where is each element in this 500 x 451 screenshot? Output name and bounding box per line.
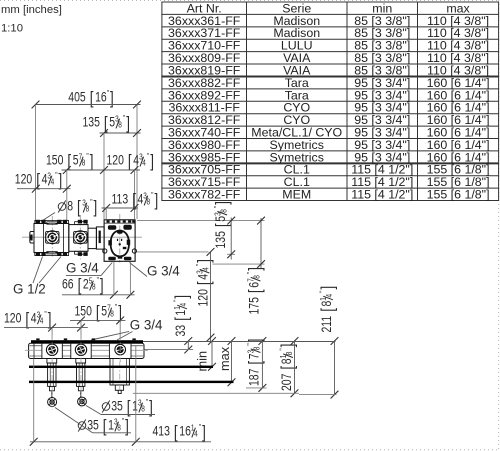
dim text 175v bbox=[245, 267, 265, 314]
top view connector bbox=[88, 228, 96, 248]
svg-text:175: 175 bbox=[246, 297, 262, 315]
svg-text:8: 8 bbox=[252, 275, 262, 279]
mounting tab bbox=[57, 252, 61, 256]
page dotted border top bbox=[0, 0, 500, 2]
svg-text:[: [ bbox=[174, 424, 178, 443]
svg-text:8: 8 bbox=[141, 404, 145, 414]
dim text 135v bbox=[212, 201, 232, 248]
dim line 175v bbox=[260, 218, 262, 268]
page dotted border bottom bbox=[0, 449, 500, 451]
extension bottom edge right bbox=[137, 251, 209, 253]
svg-text:]: ] bbox=[279, 344, 298, 348]
dim text 413 bbox=[153, 422, 206, 442]
svg-text:": " bbox=[199, 422, 202, 432]
svg-text:8: 8 bbox=[284, 352, 294, 356]
svg-text:]: ] bbox=[319, 286, 338, 290]
svg-text:G 1/2: G 1/2 bbox=[13, 282, 46, 297]
svg-text:8: 8 bbox=[110, 309, 114, 319]
left body top rail bbox=[35, 220, 69, 223]
centerline bottom valve 1 bbox=[51, 335, 53, 363]
svg-text:min: min bbox=[195, 351, 210, 372]
mounting tab bbox=[36, 220, 40, 224]
G1/2 leader 1 bbox=[33, 257, 43, 284]
second body top tab bbox=[75, 222, 87, 225]
strip left end cap bbox=[33, 343, 35, 358]
svg-text:": " bbox=[55, 170, 58, 180]
svg-text:4: 4 bbox=[40, 316, 44, 326]
mounting tab bbox=[63, 220, 67, 224]
svg-text:4: 4 bbox=[51, 177, 55, 187]
extension line mid bbox=[103, 133, 105, 219]
dim text 187v bbox=[245, 339, 265, 386]
dim text dia35b bbox=[78, 416, 129, 436]
dim line 211v bbox=[334, 341, 336, 395]
svg-text:4: 4 bbox=[201, 267, 211, 271]
svg-text:[: [ bbox=[319, 307, 338, 311]
valve cartridge square V2 bbox=[74, 231, 87, 243]
svg-text:]: ] bbox=[173, 295, 192, 299]
dim text 33v bbox=[172, 295, 192, 337]
svg-text:4: 4 bbox=[178, 303, 188, 307]
svg-text:4: 4 bbox=[142, 158, 146, 168]
adapter black bar bbox=[99, 231, 101, 244]
bottom valve body B2 bbox=[71, 343, 91, 358]
stem 1 foot bbox=[50, 386, 55, 390]
svg-text:150: 150 bbox=[46, 152, 64, 168]
svg-text:": " bbox=[278, 348, 288, 351]
extension line 134.5 bbox=[134, 170, 136, 219]
svg-text:66: 66 bbox=[62, 276, 74, 292]
max wall line (thick) bbox=[29, 381, 234, 383]
dim line 187v bbox=[261, 341, 263, 388]
svg-text:8: 8 bbox=[118, 120, 122, 130]
svg-text:[: [ bbox=[213, 223, 232, 227]
G3/4 leader bbox=[101, 263, 112, 276]
svg-text:4: 4 bbox=[194, 429, 198, 439]
svg-text:]: ] bbox=[202, 424, 206, 443]
G3/4 shelf bbox=[66, 275, 101, 277]
svg-text:16: 16 bbox=[95, 89, 107, 105]
svg-text:]: ] bbox=[155, 192, 159, 211]
dim text 113 bbox=[112, 190, 159, 210]
svg-text:]: ] bbox=[247, 267, 266, 271]
extension bottom edge right part2 bbox=[227, 253, 235, 255]
min wall line (thick) bbox=[29, 366, 213, 368]
dim text 120c bbox=[4, 309, 51, 329]
dim line 150a/120a bbox=[62, 169, 141, 171]
dim text 207v bbox=[278, 344, 298, 391]
stem 1 bbox=[47, 359, 57, 364]
svg-text:[: [ bbox=[78, 277, 82, 296]
svg-text:]: ] bbox=[125, 418, 129, 437]
egg small port bbox=[123, 247, 127, 249]
screw level extension bbox=[133, 392, 299, 394]
top view adapter plate bbox=[96, 227, 104, 249]
bottom view horizontal centerline bbox=[25, 349, 148, 351]
svg-text:8: 8 bbox=[82, 158, 86, 168]
mounting tab bbox=[41, 220, 45, 224]
svg-text:]: ] bbox=[150, 153, 154, 172]
extension line 66.8 bbox=[66, 170, 68, 221]
svg-text:]: ] bbox=[48, 311, 52, 330]
top view left end cap bbox=[30, 232, 34, 244]
svg-text:G 3/4: G 3/4 bbox=[147, 264, 180, 279]
valve circle V1 bbox=[46, 231, 59, 244]
right body egg opening bbox=[111, 231, 129, 257]
svg-text:8: 8 bbox=[147, 197, 151, 207]
centerline right body bbox=[119, 214, 121, 263]
dim line 207v bbox=[294, 341, 296, 393]
centerline valve 1 bbox=[51, 216, 53, 259]
dim line 113 bbox=[102, 207, 139, 209]
dim text 120b bbox=[15, 170, 62, 190]
strip lower edge extension bbox=[144, 349, 193, 351]
left body bottom rail bbox=[35, 253, 69, 256]
svg-text:16: 16 bbox=[179, 423, 191, 439]
bottom valve circle B2 bbox=[75, 344, 86, 355]
right body corner screws bbox=[103, 249, 107, 253]
svg-text:187: 187 bbox=[246, 368, 262, 386]
washer circle 2 bbox=[78, 397, 87, 406]
extension top edge right bbox=[137, 220, 265, 222]
svg-text:135: 135 bbox=[83, 114, 101, 130]
extension line left body edge bbox=[35, 105, 37, 223]
top view horizontal centerline bbox=[22, 236, 142, 238]
svg-text:]: ] bbox=[94, 199, 98, 218]
svg-text:": " bbox=[90, 197, 93, 207]
G3/4 third leader long bbox=[91, 332, 129, 341]
svg-text:155 [6 1/8"]: 155 [6 1/8"] bbox=[427, 188, 490, 202]
leader dia35 second bbox=[55, 408, 93, 433]
svg-text:115 [4 1/2"]: 115 [4 1/2"] bbox=[351, 188, 413, 202]
stem 3 foot bbox=[115, 385, 123, 390]
svg-text:[: [ bbox=[247, 289, 266, 293]
foot level extension bbox=[246, 387, 267, 389]
stem 3 (rough housing) bbox=[110, 359, 129, 386]
dim text 211v bbox=[318, 286, 338, 333]
strip inner bottom line bbox=[30, 355, 144, 357]
svg-text:": " bbox=[122, 416, 125, 426]
dim line 135h bbox=[100, 132, 141, 134]
svg-text:113: 113 bbox=[112, 191, 129, 207]
svg-text:G 3/4: G 3/4 bbox=[130, 318, 163, 333]
extension port level right bbox=[213, 263, 265, 265]
dim text 120a bbox=[107, 151, 154, 171]
svg-text:135: 135 bbox=[213, 231, 229, 249]
svg-text:8: 8 bbox=[218, 209, 228, 213]
svg-text:[: [ bbox=[128, 153, 132, 172]
page dotted border right bbox=[498, 0, 500, 451]
dim line 120c bbox=[4, 327, 88, 329]
svg-text:": " bbox=[245, 271, 255, 274]
svg-text:max: max bbox=[217, 346, 232, 371]
stem 2 screw bbox=[80, 391, 82, 397]
dim line max bbox=[231, 341, 233, 382]
svg-text:[: [ bbox=[103, 418, 107, 437]
dia35 second shelf bbox=[93, 432, 132, 434]
bottom view rail thin extension bbox=[143, 341, 336, 343]
svg-text:]: ] bbox=[213, 201, 232, 205]
svg-text:[: [ bbox=[90, 90, 94, 109]
svg-text:]: ] bbox=[196, 259, 215, 263]
extension line 106 bbox=[105, 208, 107, 219]
leader dia35 first bbox=[86, 406, 101, 415]
svg-text:[: [ bbox=[25, 311, 29, 330]
svg-text:207: 207 bbox=[279, 373, 295, 391]
svg-text:211: 211 bbox=[319, 316, 335, 333]
svg-text:150: 150 bbox=[75, 303, 93, 319]
svg-text:": " bbox=[97, 275, 100, 285]
svg-text:[: [ bbox=[279, 365, 298, 369]
svg-text:]: ] bbox=[59, 172, 63, 191]
egg inner marks bbox=[117, 239, 119, 241]
dim line 413 bbox=[30, 441, 211, 443]
dim text dia8 bbox=[58, 197, 97, 217]
strip inner top line bbox=[30, 345, 144, 347]
mounting tab bbox=[57, 220, 61, 224]
rail screw nub bbox=[64, 338, 67, 340]
svg-text:[: [ bbox=[173, 317, 192, 321]
svg-text:413: 413 bbox=[153, 423, 171, 439]
dim text 405 bbox=[68, 88, 113, 108]
egg left ear bbox=[108, 240, 112, 245]
svg-text:": " bbox=[86, 151, 89, 161]
svg-text:[: [ bbox=[196, 281, 215, 285]
svg-text:36xxx782-FF: 36xxx782-FF bbox=[168, 188, 241, 202]
dim text 150a bbox=[46, 151, 93, 171]
second body bottom tab bbox=[75, 251, 87, 254]
stem 1 screw bbox=[51, 391, 53, 398]
centerline bottom valve 2 bbox=[80, 335, 82, 363]
svg-text:]: ] bbox=[126, 115, 130, 134]
rail screw nub bbox=[92, 338, 95, 340]
svg-text:MEM: MEM bbox=[282, 188, 311, 202]
svg-text:": " bbox=[123, 113, 126, 123]
svg-text:405: 405 bbox=[68, 89, 86, 105]
top view right body bbox=[104, 220, 135, 261]
bottom valve circle B1 bbox=[46, 344, 57, 355]
dim text 150b bbox=[75, 302, 122, 322]
svg-text:G 3/4: G 3/4 bbox=[66, 261, 99, 276]
svg-text:8: 8 bbox=[86, 204, 90, 214]
svg-text:8: 8 bbox=[252, 347, 262, 351]
svg-text:120: 120 bbox=[4, 310, 22, 326]
svg-text:": " bbox=[245, 343, 255, 346]
svg-text:mm [inches]: mm [inches] bbox=[1, 4, 62, 16]
svg-text:8: 8 bbox=[67, 198, 73, 214]
stem 3 tip bbox=[118, 390, 121, 393]
ext valve2 bbox=[80, 320, 82, 339]
left body divider 1 bbox=[43, 224, 45, 253]
leader line dia8 bbox=[41, 213, 55, 222]
svg-text:": " bbox=[151, 190, 154, 200]
left body divider 2 bbox=[63, 224, 65, 253]
dim line 120v bbox=[210, 252, 212, 341]
dim line 120b bbox=[17, 188, 71, 190]
dim line 150b bbox=[70, 319, 125, 321]
svg-text:[: [ bbox=[96, 304, 100, 323]
ext 413 left bbox=[33, 359, 35, 442]
right body top serration bbox=[104, 222, 135, 224]
centerline valve 2 bbox=[79, 216, 81, 260]
strip right end cap bbox=[127, 343, 129, 358]
right body bottom ports G3/4 bbox=[108, 257, 116, 261]
egg right ear bbox=[127, 240, 131, 245]
svg-text:8: 8 bbox=[117, 423, 121, 433]
extension line right body edge bbox=[136, 105, 138, 220]
svg-text:[: [ bbox=[77, 199, 81, 218]
ext port right bbox=[129, 262, 131, 295]
egg bottom tab bbox=[118, 256, 123, 259]
mounting tab bbox=[41, 252, 45, 256]
svg-text:": " bbox=[318, 290, 328, 293]
bottom valve body B3 bbox=[109, 343, 131, 358]
svg-text:": " bbox=[146, 397, 149, 407]
left end cap dark crescent bbox=[30, 235, 33, 241]
mounting tab bbox=[78, 252, 82, 256]
dim line min bbox=[211, 341, 213, 367]
bottom view rail thick bar bbox=[31, 340, 143, 343]
ext port left bbox=[113, 262, 115, 295]
svg-text:": " bbox=[194, 263, 204, 266]
ext valve3 bbox=[119, 320, 121, 339]
egg top cap bbox=[117, 230, 123, 234]
right body clamp slot left bbox=[108, 225, 116, 230]
svg-text:4: 4 bbox=[324, 294, 334, 298]
G3/4 second leader bbox=[130, 263, 148, 277]
svg-text:120: 120 bbox=[107, 152, 125, 168]
dim line 135v bbox=[230, 218, 232, 260]
dim text 120v bbox=[194, 259, 214, 306]
dia35 first shelf bbox=[101, 414, 155, 416]
svg-text:120: 120 bbox=[195, 289, 211, 307]
mounting tab bbox=[63, 252, 67, 256]
valve cartridge square V1 bbox=[46, 231, 59, 243]
dim text dia35a bbox=[102, 397, 153, 417]
stem 2 foot bbox=[78, 386, 83, 390]
svg-text:35: 35 bbox=[111, 398, 123, 414]
svg-text:": " bbox=[212, 205, 222, 208]
svg-text:8: 8 bbox=[92, 282, 96, 292]
bottom valve body B1 bbox=[42, 343, 62, 358]
svg-text:]: ] bbox=[100, 277, 104, 296]
dim text 135h bbox=[83, 113, 130, 133]
dim line 405 bbox=[36, 104, 141, 106]
svg-text:]: ] bbox=[90, 153, 94, 172]
svg-text:": " bbox=[44, 309, 47, 319]
stem 2 bbox=[76, 359, 86, 364]
dim text 66 bbox=[62, 275, 104, 295]
dim line 66 bbox=[62, 294, 135, 296]
top view left body bbox=[34, 224, 69, 253]
G3/4 third leader short bbox=[117, 332, 133, 341]
svg-text:1:10: 1:10 bbox=[1, 23, 23, 35]
rail screw nub bbox=[36, 338, 39, 340]
ext valve1 bbox=[51, 328, 53, 339]
mounting tab bbox=[83, 252, 87, 256]
bottom valve circle B3 bbox=[115, 344, 126, 355]
svg-text:33: 33 bbox=[173, 325, 189, 337]
svg-text:": " bbox=[115, 302, 118, 312]
ext 413 right bbox=[135, 345, 137, 442]
parts table bbox=[161, 1, 499, 3]
valve circle V2 bbox=[74, 231, 87, 244]
svg-text:120: 120 bbox=[15, 171, 33, 187]
washer circle 1 bbox=[48, 398, 57, 407]
svg-text:": " bbox=[107, 88, 110, 98]
top view second body bbox=[69, 225, 88, 252]
G1/2 leader 2 bbox=[39, 257, 61, 284]
end level extension bbox=[299, 394, 337, 396]
svg-text:": " bbox=[172, 299, 182, 302]
rail screw nub bbox=[132, 338, 135, 340]
dim line 33v bbox=[187, 341, 189, 350]
bottom view strip body bbox=[29, 343, 144, 358]
mounting tab bbox=[36, 252, 40, 256]
svg-text:]: ] bbox=[110, 90, 114, 109]
right body clamp slot right bbox=[123, 225, 131, 230]
left body center bracket bbox=[47, 222, 57, 224]
mounting tab bbox=[83, 220, 87, 224]
centerline bottom valve 3 bbox=[119, 335, 121, 363]
mounting tab bbox=[78, 220, 82, 224]
svg-text:": " bbox=[147, 151, 150, 161]
